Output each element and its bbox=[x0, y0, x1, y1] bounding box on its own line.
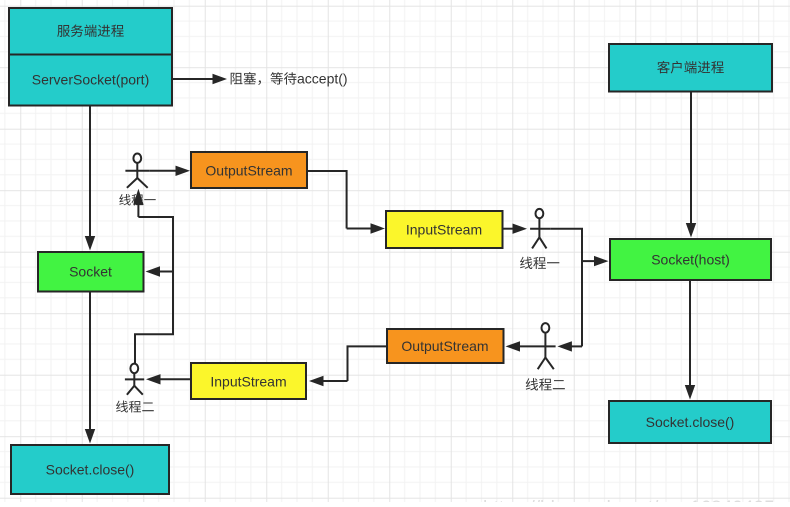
box OutputStream top bbox=[191, 152, 307, 188]
arrow actor1 to OutputStream bbox=[149, 166, 190, 176]
svg-text:accept(): accept() bbox=[297, 71, 348, 87]
wire OutputStream bottom to InputStream bottom bbox=[309, 346, 387, 386]
svg-text:https://blog.csdn.net/qq_16840: https://blog.csdn.net/qq_16840425 bbox=[483, 498, 775, 502]
arrow ServerSocket to Socket bbox=[85, 106, 95, 251]
wire OutputStream to InputStream elbow bbox=[307, 171, 385, 234]
svg-text:InputStream: InputStream bbox=[210, 374, 286, 390]
box 服务端进程 / ServerSocket(port) bbox=[9, 8, 172, 106]
box Socket(host) bbox=[610, 239, 771, 280]
note 阻塞，等待accept() bbox=[231, 71, 348, 87]
box InputStream middle bbox=[386, 211, 503, 248]
arrow Socket(host) to Socket.close bbox=[685, 280, 695, 400]
label 线程二 right bbox=[526, 378, 565, 390]
arrow InputStream to actor 线程一 right bbox=[503, 224, 528, 234]
actor 线程一 top-left bbox=[125, 154, 149, 188]
label 线程二 bottom-left bbox=[116, 401, 154, 413]
svg-text:InputStream: InputStream bbox=[406, 222, 482, 238]
box Socket.close() left bbox=[11, 445, 169, 494]
svg-text:Socket.close(): Socket.close() bbox=[46, 462, 135, 478]
svg-text:Socket.close(): Socket.close() bbox=[646, 414, 735, 430]
box InputStream bottom bbox=[191, 363, 306, 399]
wire actor right to Socket(host) with branch bbox=[551, 229, 609, 347]
arrow Socket to Socket.close bbox=[85, 292, 95, 444]
actor 线程一 right bbox=[530, 209, 551, 248]
arrow InputStream bottom to actor 线程二 left bbox=[146, 374, 191, 384]
box OutputStream bottom bbox=[387, 329, 504, 363]
arrow ServerSocket to note bbox=[172, 74, 227, 84]
actor 线程二 bottom-left bbox=[125, 364, 144, 395]
wire Socket branch: up-arrow into actor1, vertical, into Socket bbox=[133, 189, 173, 364]
label 线程一 top-left bbox=[119, 194, 155, 206]
actor 线程二 right bbox=[535, 323, 556, 369]
arrow branch down to actor 线程二 right bbox=[557, 341, 582, 351]
box Socket.close() right bbox=[609, 401, 771, 443]
svg-text:ServerSocket(port): ServerSocket(port) bbox=[32, 72, 149, 88]
arrow client to Socket(host) bbox=[686, 92, 696, 238]
svg-text:Socket(host): Socket(host) bbox=[651, 252, 730, 268]
box 客户端进程 bbox=[609, 44, 772, 92]
svg-text:OutputStream: OutputStream bbox=[205, 163, 292, 179]
svg-text:Socket: Socket bbox=[69, 264, 112, 280]
label 线程一 right bbox=[520, 257, 559, 269]
box Socket bbox=[38, 252, 144, 292]
arrow actor 线程二 to OutputStream bottom bbox=[506, 341, 536, 351]
svg-text:OutputStream: OutputStream bbox=[401, 338, 488, 354]
